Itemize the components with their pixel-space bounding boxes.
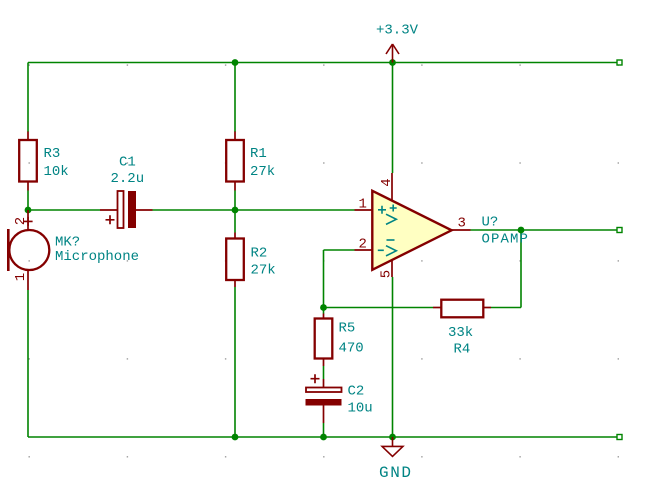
resistor R2 xyxy=(226,233,276,288)
svg-text:U?: U? xyxy=(482,215,499,231)
body MK? diaphragm bar xyxy=(7,229,10,271)
svg-text:2.2u: 2.2u xyxy=(111,171,145,187)
pin R4.2 xyxy=(483,307,491,309)
microphone MK? xyxy=(8,210,139,290)
wire R2 bottom to bottom rail xyxy=(234,287,236,437)
pin name + (non-inverting input) xyxy=(378,206,386,214)
wire op-amp pin 2 horizontal xyxy=(324,249,355,251)
svg-text:C1: C1 xyxy=(119,155,136,171)
svg-text:OPAMP: OPAMP xyxy=(482,232,530,248)
capacitor C1 xyxy=(100,155,153,229)
wire left column: rail to R3 xyxy=(27,63,29,133)
pin R1.1 xyxy=(234,132,236,141)
svg-text:1: 1 xyxy=(359,197,367,213)
polarity + of C2 xyxy=(311,374,320,383)
wire pin 2 down to node C xyxy=(323,250,325,308)
wire C1 to op-amp pin 1 xyxy=(153,209,355,211)
pin R2.2 xyxy=(234,280,236,287)
pin C2.1 xyxy=(323,379,325,387)
junction output node xyxy=(518,227,525,234)
wire R4 right to feedback riser xyxy=(491,307,521,309)
pin R3.1 xyxy=(27,132,29,141)
svg-text:R4: R4 xyxy=(454,342,471,358)
wire output to right edge xyxy=(471,229,618,231)
svg-text:C2: C2 xyxy=(348,384,365,400)
body R1 xyxy=(226,140,244,182)
resistor R1 xyxy=(226,132,275,191)
polarity + of MK? xyxy=(24,217,33,226)
capacitor C2 xyxy=(306,374,373,423)
svg-text:470: 470 xyxy=(339,341,364,357)
svg-text:27k: 27k xyxy=(250,164,275,180)
pin R1.2 xyxy=(234,182,236,191)
pin name - (inverting input) xyxy=(378,249,384,251)
body R3 xyxy=(19,140,37,182)
svg-text:GND: GND xyxy=(379,464,413,482)
svg-text:33k: 33k xyxy=(448,325,473,341)
junction node C (pin 2/R5/R4) xyxy=(320,304,327,311)
wire left column: R3 to node A xyxy=(27,191,29,211)
pin R5.2 xyxy=(323,359,325,367)
wire R1 top to rail xyxy=(234,63,236,133)
junction bottom rail / R2 xyxy=(232,434,239,441)
svg-text:4: 4 xyxy=(379,178,395,186)
body U? triangle xyxy=(372,191,451,270)
resistor R3 xyxy=(19,132,69,191)
polarity + of C1 xyxy=(106,215,115,224)
wire op-amp pin 5 to ground rail xyxy=(392,277,394,437)
svg-text:R2: R2 xyxy=(251,246,268,262)
svg-text:+3.3V: +3.3V xyxy=(376,23,419,39)
body R5 xyxy=(315,319,333,359)
body R4 xyxy=(441,300,483,318)
junction node B (R1/R2/C1/pin 1) xyxy=(232,207,239,214)
wire node C to R4 left xyxy=(324,307,434,309)
svg-text:3: 3 xyxy=(458,216,466,232)
pin C1.2 xyxy=(136,209,153,211)
plate C2 negative xyxy=(306,399,342,406)
junction node A (R3/mic/C1) xyxy=(25,207,32,214)
plate C1 negative xyxy=(128,191,136,228)
svg-text:R3: R3 xyxy=(44,146,61,162)
wire bottom ground rail xyxy=(28,436,617,438)
wire left column: microphone to bottom rail xyxy=(27,290,29,437)
svg-text:27k: 27k xyxy=(251,263,276,279)
svg-text:1: 1 xyxy=(13,273,29,281)
svg-text:Microphone: Microphone xyxy=(55,249,139,265)
pin U?.1 xyxy=(355,209,373,211)
resistor R5 xyxy=(315,314,364,367)
svg-text:5: 5 xyxy=(379,270,395,278)
pin R5.1 xyxy=(323,314,325,319)
open endpoint output xyxy=(617,228,622,233)
svg-text:R1: R1 xyxy=(250,146,267,162)
pin R4.1 xyxy=(433,307,441,309)
wire top +3.3V rail xyxy=(28,62,617,64)
pin U?.3 xyxy=(452,229,471,231)
body R2 xyxy=(226,239,244,281)
plate C2 positive xyxy=(306,388,342,393)
pin R2.1 xyxy=(234,233,236,239)
wire +3.3V column to op-amp pin 4 xyxy=(392,63,394,174)
pin C1.1 xyxy=(100,209,117,211)
svg-text:10u: 10u xyxy=(348,401,373,417)
junction top rail / R1 xyxy=(232,59,239,66)
power symbol +3.3V xyxy=(386,44,399,63)
pin U?.4 xyxy=(391,173,393,201)
open endpoint bottom rail xyxy=(617,435,622,440)
ground symbol xyxy=(382,437,403,456)
wire R5 bottom to C2 top xyxy=(323,366,325,379)
wire R1 bottom to node B xyxy=(234,191,236,233)
pin name V- xyxy=(387,239,395,241)
pin MK?.2 xyxy=(27,210,29,230)
wire feedback riser to output node xyxy=(520,230,522,308)
pin U?.5 xyxy=(391,260,393,278)
pin R3.2 xyxy=(27,182,29,191)
wire node A to C1 xyxy=(28,209,100,211)
pin C2.2 xyxy=(323,406,325,424)
junction bottom rail / GND xyxy=(389,434,396,441)
svg-text:10k: 10k xyxy=(44,164,69,180)
pin U?.2 xyxy=(355,249,373,251)
junction bottom rail / C2 xyxy=(320,434,327,441)
plate C1 positive xyxy=(118,191,124,228)
pin name V+ xyxy=(390,205,397,212)
open endpoint top rail xyxy=(617,60,622,65)
svg-text:R5: R5 xyxy=(339,321,356,337)
junction top rail / +3.3V xyxy=(389,59,396,66)
svg-text:2: 2 xyxy=(359,237,367,253)
op-amp U? xyxy=(355,173,530,278)
resistor R4 xyxy=(433,300,491,358)
wire C2 bottom to ground rail xyxy=(323,423,325,437)
pin MK?.1 xyxy=(27,270,29,290)
body MK? circle xyxy=(9,230,49,270)
wire node C to R5 top xyxy=(323,308,325,314)
